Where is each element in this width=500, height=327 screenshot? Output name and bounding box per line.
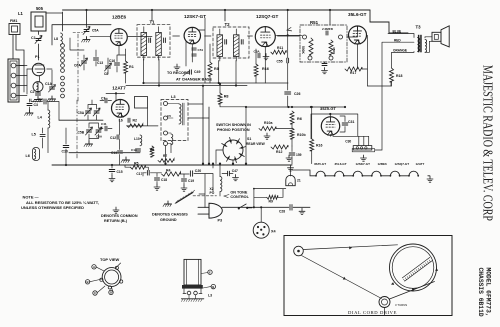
svg-text:C41: C41 [101,122,107,126]
svg-text:L5: L5 [32,133,36,137]
svg-text:C26: C26 [294,92,300,96]
svg-text:R2: R2 [133,119,138,123]
svg-text:C31: C31 [348,120,354,124]
svg-text:P1: P1 [35,55,40,59]
svg-text:C47: C47 [232,169,238,173]
svg-text:E: E [209,270,211,274]
svg-text:T2: T2 [225,22,231,27]
svg-text:R8: R8 [224,95,229,99]
svg-text:C5: C5 [167,114,171,118]
svg-text:12BE6: 12BE6 [378,162,388,166]
svg-text:35Z5-GT: 35Z5-GT [314,162,326,166]
svg-text:450K: 450K [332,47,336,55]
svg-text:R10a: R10a [264,121,272,125]
svg-text:12AT7: 12AT7 [416,162,425,166]
svg-text:R8: R8 [214,67,219,71]
svg-text:C6A: C6A [96,135,103,139]
svg-text:D: D [110,291,112,295]
svg-text:PO: PO [210,191,215,195]
svg-text:AT CHANGER BASE: AT CHANGER BASE [176,78,213,82]
svg-text:DENOTES CHASSIS: DENOTES CHASSIS [152,213,188,217]
svg-text:R6: R6 [297,117,302,121]
svg-text:L1: L1 [18,11,24,16]
svg-text:12SQ7-GT: 12SQ7-GT [395,162,410,166]
svg-text:35L6-GT: 35L6-GT [335,162,347,166]
svg-text:C17: C17 [136,172,142,176]
svg-text:C14: C14 [131,148,137,152]
svg-text:C18: C18 [161,178,167,182]
svg-text:C3: C3 [34,103,39,107]
svg-text:L3: L3 [208,294,212,298]
svg-text:DIAL CORD DRIVE: DIAL CORD DRIVE [348,310,397,315]
svg-text:C55: C55 [277,60,283,64]
svg-text:C30: C30 [345,140,351,144]
svg-text:C1A: C1A [45,82,52,86]
svg-text:CHASSIS 6B11D: CHASSIS 6B11D [477,268,484,317]
svg-text:L3: L3 [171,94,176,99]
svg-text:C5A: C5A [78,111,85,115]
svg-text:C2: C2 [30,90,35,94]
svg-text:CONTROL: CONTROL [230,195,249,199]
svg-text:ON TONE: ON TONE [230,191,247,195]
svg-text:500K: 500K [301,46,305,55]
svg-text:C51: C51 [198,48,204,52]
svg-text:NOTE —: NOTE — [23,195,39,200]
svg-text:MAJESTIC RADIO & TELEV. CORP: MAJESTIC RADIO & TELEV. CORP [480,65,495,221]
svg-text:21: 21 [297,179,301,183]
svg-text:L10: L10 [134,137,140,141]
svg-text:C5B: C5B [78,131,85,135]
svg-text:B: B [87,280,89,284]
svg-text:R18: R18 [396,74,402,78]
svg-text:R10b: R10b [297,133,306,137]
svg-text:L8: L8 [54,37,58,41]
svg-text:C15: C15 [117,170,123,174]
svg-text:C19: C19 [188,179,194,183]
svg-text:3 TURNS: 3 TURNS [395,303,407,307]
svg-text:T1: T1 [150,20,156,25]
svg-text:2.0MFD: 2.0MFD [322,27,334,31]
svg-text:PHONO POSITION: PHONO POSITION [217,128,250,132]
svg-text:C13: C13 [97,61,103,65]
svg-text:12SK7-GT: 12SK7-GT [184,14,206,19]
svg-text:C12: C12 [110,136,116,140]
svg-text:505: 505 [36,6,44,11]
svg-text:MODEL 6FM773,: MODEL 6FM773, [485,268,492,317]
svg-text:12AT7: 12AT7 [112,85,126,90]
svg-text:B: B [212,285,214,289]
svg-text:C10: C10 [62,150,68,154]
svg-text:C28: C28 [279,210,285,214]
svg-text:L6: L6 [26,154,30,158]
svg-text:R16: R16 [316,144,322,148]
svg-text:C49: C49 [194,70,200,74]
svg-text:FM1: FM1 [10,19,17,23]
svg-text:S1: S1 [247,137,251,141]
svg-text:P3: P3 [218,219,223,223]
svg-text:BLUE: BLUE [393,30,402,34]
svg-text:TOP VIEW: TOP VIEW [100,257,119,262]
svg-text:RETURN (B-): RETURN (B-) [104,219,128,223]
svg-text:C13: C13 [111,151,117,155]
svg-text:DENOTES COMMON: DENOTES COMMON [101,214,138,218]
svg-text:C1: C1 [31,36,36,40]
svg-text:C16: C16 [109,59,115,63]
svg-text:C3A: C3A [254,50,261,54]
svg-text:REAR VIEW: REAR VIEW [246,142,266,146]
svg-text:R51: R51 [310,20,319,25]
svg-text:C4: C4 [39,98,43,102]
svg-text:R1: R1 [129,65,134,69]
svg-text:159: 159 [296,153,302,157]
svg-text:C5A: C5A [92,29,99,33]
svg-text:C6A: C6A [74,64,81,68]
svg-text:12SK7-GT: 12SK7-GT [356,162,371,166]
svg-text:ORANGE: ORANGE [393,49,407,53]
svg-text:R4: R4 [166,168,171,172]
svg-text:A: A [93,265,95,269]
svg-text:C: C [94,291,96,295]
svg-text:35L6-GT: 35L6-GT [348,12,367,17]
svg-text:C20: C20 [195,169,201,173]
svg-text:T3: T3 [416,25,422,30]
svg-text:R12: R12 [276,150,282,154]
svg-text:UNLESS OTHERWISE SPECIFIED: UNLESS OTHERWISE SPECIFIED [21,205,84,210]
svg-text:GROUND: GROUND [160,218,177,222]
svg-text:12BE6: 12BE6 [112,15,127,20]
svg-text:12SQ7-GT: 12SQ7-GT [256,14,278,19]
